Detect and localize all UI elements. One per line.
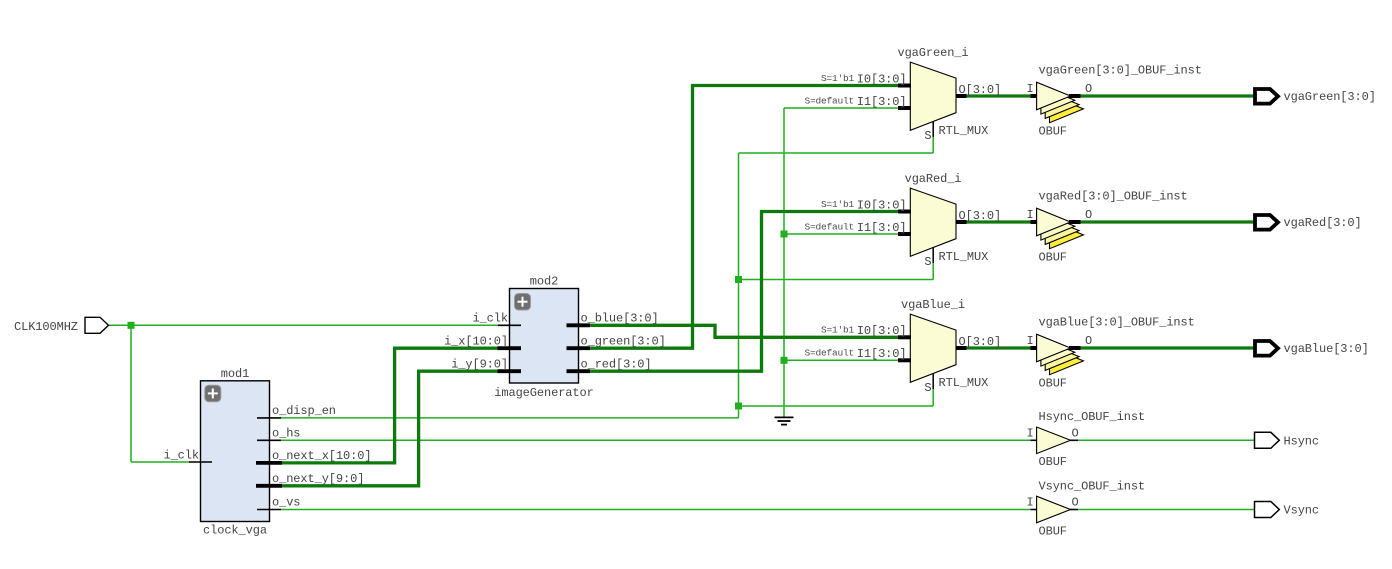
pin O of Hsync OBUF — [1070, 439, 1078, 441]
svg-text:S: S — [924, 129, 931, 143]
buffer U vgaRed[3:0]_OBUF_inst — [1037, 190, 1188, 265]
pin i_y[9:0] of mod2 — [498, 369, 522, 373]
svg-text:o_hs: o_hs — [272, 426, 300, 440]
pin o_next_x[10:0] of mod1 — [256, 461, 282, 465]
junction CLK100MHZ net — [128, 322, 135, 329]
ground — [775, 417, 794, 424]
output port Hsync — [1255, 432, 1320, 448]
pin O of vgaRed OBUF — [1069, 220, 1081, 224]
wire net CLK100MHZ branch horizontal to mod1 i_clk — [131, 461, 190, 463]
wire net o_disp_en branch to vgaRed_i S — [739, 279, 934, 281]
mux vgaBlue_i RTL_MUX — [901, 298, 988, 395]
svg-text:O: O — [1085, 82, 1092, 96]
svg-text:I: I — [1026, 334, 1033, 348]
svg-text:RTL_MUX: RTL_MUX — [939, 124, 989, 138]
svg-text:vgaGreen[3:0]: vgaGreen[3:0] — [1284, 90, 1376, 104]
wire net GND branch to vgaGreen_i I1 — [784, 107, 899, 109]
svg-text:Vsync: Vsync — [1284, 504, 1320, 518]
wire net Hsync_OBUF out — [1077, 439, 1254, 441]
svg-text:I: I — [1026, 82, 1033, 96]
pin O of vgaBlue OBUF — [1069, 346, 1081, 350]
svg-text:o_next_y[9:0]: o_next_y[9:0] — [272, 472, 364, 486]
svg-text:vgaRed[3:0]_OBUF_inst: vgaRed[3:0]_OBUF_inst — [1039, 190, 1188, 204]
wire bus vgaBlue_i O to OBUF — [966, 346, 1031, 349]
svg-text:O[3:0]: O[3:0] — [959, 209, 1002, 223]
svg-text:Vsync_OBUF_inst: Vsync_OBUF_inst — [1039, 480, 1146, 494]
svg-text:o_disp_en: o_disp_en — [272, 404, 336, 418]
pin S of vgaGreen_i — [932, 122, 934, 138]
mux vgaRed_i RTL_MUX — [905, 172, 989, 269]
svg-text:S=1'b1: S=1'b1 — [821, 199, 855, 210]
wire net CLK100MHZ branch vertical down — [130, 325, 132, 462]
svg-text:vgaGreen_i: vgaGreen_i — [897, 46, 968, 60]
wire bus vgaGreen OBUF out — [1079, 94, 1254, 97]
pin I0[3:0] of vgaRed_i — [898, 210, 911, 214]
wire bus o_green[3:0] — [589, 86, 899, 349]
svg-text:o_red[3:0]: o_red[3:0] — [581, 357, 652, 371]
svg-text:i_y[9:0]: i_y[9:0] — [451, 357, 508, 371]
pin o_hs of mod1 — [257, 439, 281, 441]
svg-text:O: O — [1085, 208, 1092, 222]
output port vgaGreen[3:0] — [1255, 89, 1376, 104]
pin I1[3:0] of vgaBlue_i — [898, 358, 911, 362]
svg-text:vgaBlue_i: vgaBlue_i — [901, 298, 965, 312]
wire segment S riser vgaBlue_i — [932, 388, 934, 406]
wire net Vsync_OBUF out — [1077, 509, 1254, 511]
pin I of vgaGreen OBUF — [1031, 94, 1038, 98]
junction o_disp_en at vgaRed_i branch — [735, 276, 742, 283]
svg-text:RTL_MUX: RTL_MUX — [939, 376, 989, 390]
svg-text:CLK100MHZ: CLK100MHZ — [14, 320, 78, 334]
wire net o_disp_en branch to vgaBlue_i S — [739, 405, 934, 407]
pin o_vs of mod1 — [257, 509, 281, 511]
svg-text:clock_vga: clock_vga — [203, 524, 267, 538]
pin i_clk of mod1 — [189, 461, 212, 463]
wire segment S riser vgaGreen_i — [932, 136, 934, 153]
output port Vsync — [1255, 502, 1320, 518]
wire net GND branch to vgaRed_i I1 — [784, 233, 899, 235]
module mod2 imageGenerator — [494, 275, 593, 401]
wire bus vgaRed_i O to OBUF — [966, 220, 1031, 223]
svg-text:vgaBlue[3:0]: vgaBlue[3:0] — [1284, 342, 1369, 356]
pin O of Vsync OBUF — [1070, 509, 1078, 511]
svg-text:Hsync_OBUF_inst: Hsync_OBUF_inst — [1039, 410, 1146, 424]
junction o_disp_en at vgaBlue_i branch — [735, 403, 742, 410]
pin o_disp_en of mod1 — [257, 417, 281, 419]
wire bus o_blue[3:0] — [589, 325, 899, 337]
svg-text:OBUF: OBUF — [1039, 125, 1067, 139]
wire bus vgaGreen_i O to OBUF — [966, 94, 1031, 97]
svg-text:S=1'b1: S=1'b1 — [821, 73, 855, 84]
svg-text:I1[3:0]: I1[3:0] — [857, 95, 907, 109]
svg-text:O[3:0]: O[3:0] — [959, 83, 1002, 97]
wire net o_disp_en horizontal from mod1 — [280, 417, 739, 419]
pin i_x[10:0] of mod2 — [498, 346, 522, 350]
svg-text:OBUF: OBUF — [1039, 251, 1067, 265]
junction GND at vgaRed_i I1 — [781, 231, 788, 238]
pin I of vgaRed OBUF — [1031, 220, 1038, 224]
svg-text:RTL_MUX: RTL_MUX — [939, 250, 989, 264]
pin i_clk of mod2 — [498, 324, 521, 326]
wire net GND branch to vgaBlue_i I1 — [784, 359, 899, 361]
svg-text:I1[3:0]: I1[3:0] — [857, 221, 907, 235]
wire net o_disp_en branch to vgaGreen_i S — [739, 152, 934, 154]
svg-text:vgaBlue[3:0]_OBUF_inst: vgaBlue[3:0]_OBUF_inst — [1039, 316, 1195, 330]
input port CLK100MHZ — [14, 317, 109, 334]
svg-text:imageGenerator: imageGenerator — [494, 386, 593, 400]
wire bus o_next_y[9:0] — [280, 371, 498, 486]
svg-text:I0[3:0]: I0[3:0] — [857, 198, 907, 212]
pin S of vgaRed_i — [932, 248, 934, 264]
svg-text:S=default: S=default — [804, 348, 854, 359]
svg-text:i_x[10:0]: i_x[10:0] — [444, 334, 508, 348]
svg-text:vgaGreen[3:0]_OBUF_inst: vgaGreen[3:0]_OBUF_inst — [1039, 64, 1202, 78]
output port vgaRed[3:0] — [1255, 215, 1362, 230]
svg-text:O: O — [1072, 426, 1079, 440]
pin O of vgaGreen OBUF — [1069, 94, 1081, 98]
svg-text:i_clk: i_clk — [163, 449, 199, 463]
pin I1[3:0] of vgaRed_i — [898, 232, 911, 236]
svg-text:I0[3:0]: I0[3:0] — [857, 72, 907, 86]
svg-text:O: O — [1072, 496, 1079, 510]
pin o_green[3:0] of mod2 — [567, 346, 591, 350]
buffer Vsync_OBUF_inst — [1037, 480, 1145, 539]
pin I0[3:0] of vgaBlue_i — [898, 335, 911, 339]
svg-text:O[3:0]: O[3:0] — [959, 335, 1002, 349]
wire bus o_next_x[10:0] — [280, 348, 498, 463]
svg-text:o_blue[3:0]: o_blue[3:0] — [581, 311, 659, 325]
svg-text:Hsync: Hsync — [1284, 435, 1320, 449]
svg-text:I1[3:0]: I1[3:0] — [857, 347, 907, 361]
wire net CLK100MHZ horizontal to mod2 i_clk — [109, 324, 500, 326]
pin o_blue[3:0] of mod2 — [567, 323, 591, 327]
buffer U vgaGreen[3:0]_OBUF_inst — [1037, 64, 1202, 139]
svg-text:o_vs: o_vs — [272, 496, 300, 510]
svg-text:O: O — [1085, 334, 1092, 348]
module mod1 clock_vga — [201, 367, 270, 538]
pin o_red[3:0] of mod2 — [567, 369, 591, 373]
svg-text:vgaRed[3:0]: vgaRed[3:0] — [1284, 216, 1362, 230]
pin O[3:0] of vgaRed_i — [956, 220, 967, 224]
svg-text:o_next_x[10:0]: o_next_x[10:0] — [272, 449, 371, 463]
pin I1[3:0] of vgaGreen_i — [898, 106, 911, 110]
svg-text:I: I — [1026, 208, 1033, 222]
pin o_next_y[9:0] of mod1 — [256, 484, 282, 488]
wire net o_vs — [280, 509, 1031, 511]
wire bus o_red[3:0] — [589, 212, 899, 372]
buffer Hsync_OBUF_inst — [1037, 410, 1145, 469]
svg-text:OBUF: OBUF — [1039, 377, 1067, 391]
buffer U vgaBlue[3:0]_OBUF_inst — [1037, 316, 1195, 391]
svg-text:mod1: mod1 — [221, 367, 249, 381]
pin O[3:0] of vgaBlue_i — [956, 346, 967, 350]
wire segment S riser vgaRed_i — [932, 262, 934, 280]
svg-text:S=1'b1: S=1'b1 — [821, 325, 855, 336]
pin I of Vsync OBUF — [1031, 509, 1038, 511]
wire net o_disp_en vertical riser — [738, 153, 740, 418]
wire net GND vertical — [783, 108, 785, 417]
svg-text:I0[3:0]: I0[3:0] — [857, 324, 907, 338]
svg-text:OBUF: OBUF — [1039, 455, 1067, 469]
pin O[3:0] of vgaGreen_i — [956, 94, 967, 98]
svg-text:S: S — [924, 255, 931, 269]
svg-text:S: S — [924, 381, 931, 395]
pin I0[3:0] of vgaGreen_i — [898, 84, 911, 88]
svg-text:o_green[3:0]: o_green[3:0] — [581, 334, 666, 348]
output port vgaBlue[3:0] — [1255, 341, 1369, 356]
svg-text:i_clk: i_clk — [472, 311, 508, 325]
svg-text:OBUF: OBUF — [1039, 525, 1067, 539]
svg-text:vgaRed_i: vgaRed_i — [905, 172, 962, 186]
svg-text:I: I — [1026, 426, 1033, 440]
svg-text:I: I — [1026, 496, 1033, 510]
svg-text:mod2: mod2 — [530, 275, 558, 289]
wire bus vgaBlue OBUF out — [1079, 346, 1254, 349]
junction GND at vgaBlue_i I1 — [781, 357, 788, 364]
wire net o_hs — [280, 439, 1031, 441]
svg-text:S=default: S=default — [804, 221, 854, 232]
pin I of Hsync OBUF — [1031, 439, 1038, 441]
pin S of vgaBlue_i — [932, 374, 934, 390]
wire bus vgaRed OBUF out — [1079, 220, 1254, 223]
mux vgaGreen_i RTL_MUX — [897, 46, 988, 143]
pin I of vgaBlue OBUF — [1031, 346, 1038, 350]
svg-text:S=default: S=default — [804, 95, 854, 106]
